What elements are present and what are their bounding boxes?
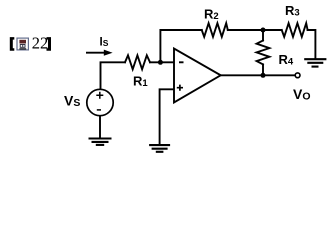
svg-text:22: 22 (32, 33, 49, 52)
svg-text:IS: IS (100, 37, 109, 49)
